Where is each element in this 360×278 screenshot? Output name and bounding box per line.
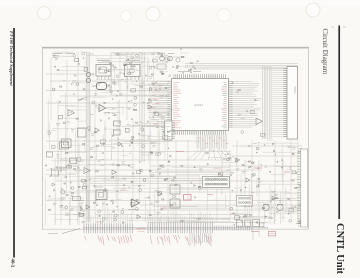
IC B7 — [59, 115, 63, 119]
label D31 — [119, 93, 123, 95]
microprocessor pin names right — [223, 81, 227, 83]
label D20 — [107, 69, 112, 71]
IC D2 — [153, 59, 157, 62]
resistor G7 — [299, 220, 301, 221]
junction D42 — [108, 71, 109, 72]
capacitor G19 — [281, 167, 283, 169]
label F85 — [94, 200, 97, 202]
resistor D1 — [99, 68, 101, 69]
diode F61 — [78, 167, 80, 169]
capacitor F22 — [147, 197, 149, 199]
capacitor C7 — [65, 176, 67, 178]
wire A20 — [81, 51, 87, 53]
label C2 — [57, 154, 60, 156]
transistor F17 — [143, 179, 146, 182]
junction D39 — [136, 81, 137, 82]
junction F3 — [68, 164, 69, 165]
transistor F9 — [121, 211, 124, 214]
resistor E81 — [134, 109, 137, 110]
IC G76 — [289, 209, 294, 212]
label G5 — [253, 174, 255, 176]
diode F89 — [81, 208, 83, 210]
title block — [296, 223, 305, 225]
connector J1001 pins group 2 — [147, 223, 149, 234]
label E33 — [169, 129, 173, 131]
resistor J10 — [219, 174, 221, 175]
capacitor E24 — [138, 133, 140, 135]
connector J1003 pins — [297, 150, 301, 152]
wire F2 — [68, 172, 78, 174]
wire G82 — [248, 216, 257, 218]
label G9 — [251, 191, 254, 193]
transistor D56 — [131, 56, 134, 59]
label H12 — [192, 65, 195, 67]
wire F104 — [116, 198, 122, 200]
junction E2 — [143, 102, 144, 103]
label D22 — [119, 71, 122, 73]
label E70 — [158, 114, 162, 116]
diode D67 — [134, 65, 136, 67]
label E91 — [89, 147, 93, 149]
resistor E12 — [91, 157, 93, 158]
transistor D49 — [136, 54, 139, 57]
wire A11 — [65, 55, 75, 57]
resistor C5 — [78, 187, 80, 188]
svg-text:J1002: J1002 — [293, 86, 297, 94]
transistor Q1031 — [86, 72, 90, 76]
label G44 — [296, 186, 301, 188]
label E94 — [169, 109, 173, 111]
transistor E16 — [161, 116, 164, 119]
IC C24 — [67, 166, 72, 169]
IC D71 — [131, 88, 136, 92]
label D41 — [97, 83, 100, 85]
label F43 — [128, 186, 131, 188]
capacitor H2 — [172, 66, 174, 68]
label G45 — [265, 165, 268, 167]
resistor A10 — [57, 70, 59, 71]
power box PS1001 — [62, 139, 72, 148]
label E83 — [156, 127, 159, 129]
capacitor H14 — [180, 48, 182, 50]
wire F63 — [199, 165, 207, 167]
red net label 5 — [251, 231, 259, 233]
wire G47 — [280, 216, 285, 218]
wire E63 — [107, 108, 117, 110]
binder hole 4 — [218, 9, 231, 22]
resistor F67 — [149, 170, 151, 171]
pin labels below — [199, 137, 202, 139]
wire A8 — [54, 52, 68, 54]
red net label 4 — [284, 171, 290, 173]
resistor E46 — [94, 132, 96, 133]
transistor Q1017 — [176, 58, 180, 62]
label F94 — [100, 164, 104, 166]
transistor D11 — [104, 70, 107, 73]
label E58 — [90, 113, 93, 115]
vertical wires scattered — [50, 58, 52, 120]
label F73 — [155, 189, 158, 191]
capacitor J2 — [220, 175, 222, 177]
connector J1003 lower right — [301, 149, 308, 227]
label F30 — [123, 177, 127, 179]
microprocessor Q1013 bottom pins — [173, 131, 175, 135]
microprocessor pin names left — [173, 81, 180, 83]
transistor E15 — [141, 128, 144, 131]
op-amp small triangles scattered — [95, 128, 99, 133]
diode F10 — [194, 185, 196, 187]
crystal X1001 can — [97, 83, 107, 90]
relay box K1001 — [78, 128, 87, 137]
resistor D32 — [152, 83, 154, 84]
capacitor C10 — [44, 165, 46, 167]
label B2 — [84, 97, 88, 99]
junction D13 — [118, 53, 119, 54]
resistor C11 — [56, 167, 58, 168]
red net label 2 — [213, 167, 221, 169]
module Q1002 TCXO label — [126, 59, 140, 61]
label D37 — [164, 57, 166, 59]
label B4 — [56, 123, 61, 125]
capacitor F46 — [93, 185, 95, 187]
resistor F53 — [74, 168, 76, 169]
diode G79 — [273, 150, 275, 152]
resistor F91 — [162, 199, 164, 200]
label D40 — [149, 76, 153, 78]
diode F103 — [133, 173, 135, 175]
red net label 3 — [253, 167, 262, 169]
junction G64 — [250, 166, 251, 167]
microprocessor Q1013 body — [172, 79, 229, 131]
junction C33 — [51, 168, 52, 169]
capacitor H19 — [182, 72, 184, 74]
label G84 — [291, 205, 294, 207]
label E17 — [147, 136, 150, 138]
diode E53 — [122, 145, 124, 147]
junction D46 — [156, 82, 157, 83]
junction G12 — [288, 213, 289, 214]
resistor F98 — [198, 218, 200, 219]
wire F49 — [71, 165, 79, 167]
capacitor E44 — [131, 138, 133, 140]
label G8 — [289, 167, 292, 169]
capacitor J12 — [226, 153, 228, 155]
diode H1 — [197, 60, 199, 62]
resistor F108 — [170, 205, 172, 206]
component column mid — [114, 121, 121, 126]
diode C20 — [54, 189, 56, 191]
diode A2 — [78, 63, 80, 65]
resistor H11 — [167, 59, 170, 60]
capacitor D62 — [122, 73, 124, 75]
capacitor F69 — [106, 204, 108, 206]
junction F41 — [194, 167, 195, 168]
junction D21 — [130, 73, 131, 74]
diode K1 — [232, 82, 234, 84]
capacitor bank C1050 — [47, 152, 53, 157]
registration mark — [331, 26, 334, 28]
capacitor C31 — [48, 196, 50, 198]
red highlight box — [184, 195, 192, 201]
label F70 — [180, 220, 184, 222]
label G29 — [274, 193, 278, 195]
diode G48 — [271, 217, 273, 219]
label C16 — [81, 159, 84, 161]
junction G14 — [264, 145, 265, 146]
right vertical rule — [338, 26, 340, 220]
label E74 — [151, 141, 155, 143]
label E76 — [98, 159, 102, 161]
wire mesh right — [254, 207, 294, 209]
transistor J11 — [226, 158, 229, 161]
capacitor F68 — [69, 182, 71, 184]
red stamp box — [269, 231, 276, 236]
capacitor D35 — [115, 95, 117, 97]
resistor G22 — [252, 162, 254, 163]
svg-text:CNTL Unit: CNTL Unit — [334, 223, 345, 275]
resistor J6 — [206, 152, 208, 153]
junction G56 — [232, 190, 233, 191]
label E43 — [101, 143, 104, 145]
wire G46 — [267, 139, 273, 141]
wire F105 — [158, 204, 164, 206]
capacitor D28 — [107, 84, 109, 86]
resistor F35 — [136, 200, 138, 201]
resistor D26 — [125, 65, 127, 66]
label D51 — [94, 93, 98, 95]
resistor C39 — [48, 209, 50, 210]
transistor Q1032 — [86, 78, 90, 82]
label G17 — [287, 145, 291, 147]
capacitor F0 — [69, 161, 71, 163]
capacitor F42 — [104, 188, 106, 190]
resistor C9 — [66, 195, 68, 196]
label C25 — [82, 209, 85, 211]
IC F54 — [158, 192, 162, 195]
resistor F40 — [131, 181, 133, 182]
IC F81 — [79, 213, 84, 216]
wire drop right — [252, 228, 254, 240]
transistor F7 — [114, 214, 117, 217]
transistor A3 — [76, 83, 79, 86]
label F44 — [78, 212, 80, 214]
transistor E7 — [130, 140, 133, 143]
resistor D43 — [161, 73, 163, 74]
resistor E52 — [170, 156, 172, 157]
junction G21 — [258, 185, 259, 186]
transistor A14 — [82, 52, 85, 55]
transistor E80 — [156, 153, 159, 156]
red net label 7 — [160, 207, 167, 209]
label D24 — [115, 53, 117, 55]
capacitor D12 — [91, 74, 93, 76]
label E10 — [152, 145, 156, 147]
label D61 — [127, 86, 129, 88]
resistor G27 — [262, 208, 264, 209]
capacitor E59 — [107, 118, 109, 120]
resistor network RN1001 — [73, 197, 81, 201]
resistor F12 — [156, 201, 158, 202]
transistor F52 — [173, 202, 176, 205]
transistor A19 — [52, 88, 55, 91]
resistor K4 — [238, 90, 240, 91]
label D36 — [164, 54, 168, 56]
junction D5 — [154, 67, 155, 68]
resistor G71 — [242, 165, 244, 166]
transistor E47 — [134, 103, 137, 106]
diode G80 — [299, 222, 301, 224]
resistor D53 — [161, 54, 163, 55]
op-amp Q1023 — [256, 118, 263, 125]
resistor F96 — [165, 178, 168, 179]
reset IC Q1021 — [170, 199, 180, 208]
op-amp Q1026 — [84, 168, 90, 174]
label E56 — [142, 129, 144, 131]
diode J8 — [224, 158, 226, 160]
resistor D45 — [114, 67, 117, 68]
label D15 — [144, 57, 146, 59]
label C12 — [61, 197, 65, 199]
capacitor E38 — [107, 112, 109, 114]
diode D7 — [165, 87, 167, 89]
resistor H13 — [189, 70, 191, 71]
resistor D19 — [129, 62, 131, 63]
wire J9 — [208, 156, 222, 158]
transistor F111 — [71, 187, 74, 190]
diode K2 — [255, 99, 257, 101]
resistor G60 — [249, 161, 251, 162]
resistor E26 — [96, 145, 99, 146]
diode A23 — [75, 75, 77, 77]
junction F57 — [80, 210, 81, 211]
transistor F88 — [161, 165, 164, 168]
label E19 — [112, 108, 115, 110]
diode G18 — [248, 167, 250, 169]
resistor G89 — [273, 198, 275, 199]
capacitor A22 — [54, 66, 56, 68]
label C14 — [70, 186, 72, 188]
pin labels outside left — [151, 82, 156, 84]
diode F65 — [123, 222, 125, 224]
diode F5 — [195, 196, 197, 198]
transistor D29 — [149, 88, 152, 91]
resistor D44 — [160, 71, 162, 72]
resistor D14 — [140, 86, 142, 87]
diode H3 — [190, 69, 192, 71]
resistor F36 — [111, 200, 113, 201]
label F97 — [130, 166, 133, 168]
resistor F15 — [112, 177, 114, 178]
inductor L1003 — [70, 158, 77, 164]
transistor F84 — [83, 183, 86, 186]
sheet header REF note — [52, 53, 62, 55]
label E31 — [170, 120, 174, 122]
transistor D6 — [124, 63, 127, 66]
detector box Q1018 — [96, 190, 107, 200]
label F27 — [102, 202, 105, 204]
wire B1 — [47, 129, 57, 131]
label G66 — [272, 191, 276, 193]
wire C0 — [70, 205, 83, 207]
diode G74 — [249, 145, 251, 147]
resistor E71 — [167, 131, 169, 132]
diode G28 — [299, 151, 301, 153]
IC A13 — [75, 59, 79, 62]
label E4 — [104, 127, 106, 129]
diode F72 — [97, 204, 99, 206]
ribbon stems below bus — [189, 233, 191, 246]
IC E49 — [125, 128, 129, 132]
diode E77 — [163, 131, 165, 133]
IC E93 — [155, 112, 159, 115]
label G37 — [264, 216, 267, 218]
junction E75 — [166, 96, 167, 97]
diode E35 — [103, 143, 105, 145]
capacitor G88 — [272, 143, 274, 145]
IC E67 — [163, 136, 168, 140]
label A7 — [72, 80, 76, 82]
label G72 — [258, 180, 261, 182]
wire J5 — [222, 162, 236, 164]
resistor C13 — [82, 144, 85, 145]
transistor F83 — [151, 174, 154, 177]
right vertical bus to connector — [262, 66, 264, 139]
junction C34 — [61, 188, 62, 189]
resistor H4 — [190, 62, 192, 63]
capacitor G2 — [232, 213, 234, 215]
diode E60 — [148, 102, 150, 104]
IC C26 — [79, 214, 83, 217]
red net label 1 — [176, 151, 184, 153]
capacitor E57 — [130, 142, 132, 144]
junction G25 — [277, 161, 278, 162]
resistor A6 — [60, 86, 62, 87]
diode J4 — [207, 163, 209, 165]
resistor F6 — [117, 165, 119, 166]
diode D3 — [124, 64, 126, 66]
capacitor G11 — [229, 174, 231, 176]
label F90 — [199, 168, 203, 170]
red net label 9 — [230, 213, 236, 215]
junction E29 — [131, 142, 132, 143]
label D25 — [125, 81, 127, 83]
red net label 6 — [120, 189, 126, 191]
diode F39 — [124, 184, 126, 186]
label D59 — [90, 53, 94, 55]
binder hole 3 — [146, 7, 160, 21]
junction D69 — [163, 73, 164, 74]
junction B8 — [60, 101, 61, 102]
wire mesh mid — [149, 135, 170, 137]
resistor G77 — [292, 180, 294, 181]
resistor F13 — [160, 165, 162, 166]
microprocessor header label — [178, 70, 190, 72]
label F47 — [122, 161, 126, 163]
resistor F87 — [198, 186, 200, 187]
resistor E25 — [132, 137, 134, 138]
transistor D38 — [149, 66, 152, 69]
resistor B9 — [78, 99, 80, 100]
transistor Q1016 — [168, 56, 173, 61]
resistor F45 — [96, 171, 99, 172]
transistor G24 — [235, 160, 238, 163]
reset IC Q1020 — [170, 185, 180, 194]
label E32 — [160, 95, 165, 97]
microprocessor Q1013 top pins — [173, 74, 175, 78]
label J7 — [224, 154, 226, 156]
diode F99 — [112, 202, 114, 204]
label E41 — [129, 152, 131, 154]
